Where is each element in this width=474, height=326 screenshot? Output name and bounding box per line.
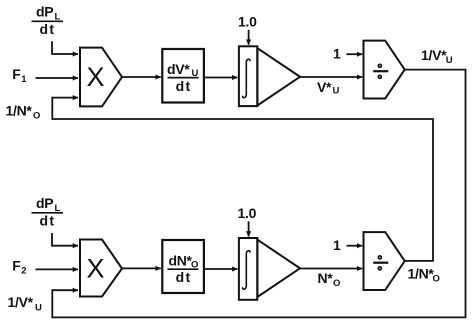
svg-text:L: L [55, 203, 61, 214]
svg-text:dV*: dV* [167, 61, 190, 77]
svg-text:O: O [433, 273, 440, 284]
svg-text:U: U [35, 303, 42, 314]
svg-text:N*: N* [318, 270, 334, 286]
svg-text:dt: dt [176, 269, 192, 285]
svg-text:dN*: dN* [169, 253, 193, 269]
svg-text:1/N*: 1/N* [6, 103, 33, 119]
svg-text:V*: V* [317, 79, 332, 95]
svg-text:O: O [191, 259, 198, 270]
svg-text:1: 1 [21, 74, 27, 85]
svg-text:U: U [192, 68, 199, 79]
svg-text:dt: dt [176, 78, 192, 94]
svg-text:O: O [33, 111, 40, 122]
svg-text:F: F [12, 258, 21, 274]
svg-text:1/V*: 1/V* [421, 47, 447, 63]
svg-text:dP: dP [36, 195, 53, 211]
svg-text:U: U [333, 86, 340, 97]
svg-text:O: O [333, 278, 340, 289]
svg-text:dP: dP [36, 4, 53, 20]
svg-text:1/V*: 1/V* [8, 294, 34, 310]
svg-text:dt: dt [40, 213, 56, 229]
svg-text:1: 1 [333, 237, 341, 253]
svg-text:L: L [55, 12, 61, 23]
svg-text:1.0: 1.0 [238, 13, 257, 29]
svg-text:U: U [446, 55, 453, 66]
svg-text:dt: dt [40, 21, 56, 37]
svg-text:X: X [86, 62, 104, 92]
svg-text:1.0: 1.0 [238, 205, 257, 221]
svg-text:1: 1 [333, 46, 341, 62]
svg-text:2: 2 [21, 266, 26, 277]
svg-text:F: F [12, 66, 21, 82]
svg-text:X: X [86, 253, 104, 283]
svg-text:1/N*: 1/N* [408, 265, 435, 281]
